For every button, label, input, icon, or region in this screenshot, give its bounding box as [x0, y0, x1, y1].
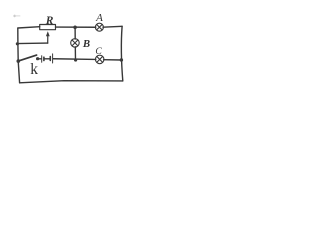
battery plate short 2	[49, 57, 51, 61]
node slider tap junction	[16, 42, 19, 45]
wire top-left horizontal	[18, 27, 40, 28]
battery plate long 2	[52, 54, 54, 63]
lamp C	[95, 55, 104, 64]
lamp B	[71, 39, 80, 48]
battery plate long 1	[41, 56, 43, 63]
wire top middle segment	[56, 26, 96, 28]
node middle junction	[74, 58, 77, 61]
svg-text:k: k	[30, 61, 38, 78]
battery middle wire	[45, 58, 50, 60]
wire lamp B branch upper	[74, 27, 76, 39]
switch k blade	[19, 55, 37, 61]
scan smudge	[13, 15, 15, 18]
wire lamp B branch lower	[74, 47, 76, 60]
svg-text:C: C	[95, 46, 102, 57]
wire left vertical	[18, 28, 20, 83]
wire middle to lamp C	[53, 58, 96, 61]
switch right contact node	[36, 57, 39, 60]
switch left contact node	[17, 59, 21, 63]
resistor R (rheostat box)	[40, 25, 56, 30]
rheostat wiper arrow	[47, 36, 49, 44]
svg-text:B: B	[82, 38, 90, 50]
svg-text:A: A	[95, 12, 103, 24]
wire lamp C to right	[104, 59, 122, 61]
battery stub wire left	[38, 58, 42, 60]
wire right vertical	[121, 26, 122, 81]
wire rheostat slider tap	[17, 42, 47, 45]
wire bottom	[20, 81, 123, 83]
battery plate short 1	[43, 57, 45, 60]
node top junction	[73, 26, 77, 30]
svg-text:R: R	[45, 15, 54, 27]
lamp A	[95, 23, 103, 31]
node right middle junction	[120, 58, 123, 61]
wire top right segment	[103, 25, 122, 28]
